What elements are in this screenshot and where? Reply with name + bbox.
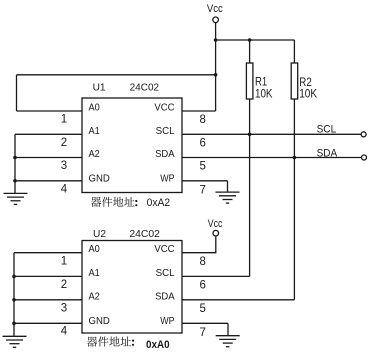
wire U2 left ground bus: [13, 253, 15, 337]
svg-text:A2: A2: [89, 290, 100, 302]
svg-text:A1: A1: [89, 267, 100, 279]
wire U1 pin 8 stub (VCC): [182, 110, 216, 112]
wire U1 WP down to ground: [227, 181, 229, 192]
svg-text:SCL: SCL: [156, 125, 175, 137]
svg-text:5: 5: [199, 303, 205, 315]
IC U1 24C02 (upper EEPROM): [82, 82, 182, 192]
wire SCL net from U1 pin 6 to terminal: [182, 133, 361, 135]
junction SCL with R1: [248, 133, 252, 137]
wire U2 pin 7 stub (WP): [182, 322, 228, 324]
wire R2 top lead: [293, 40, 295, 63]
junction U2 pin4 on bus: [12, 322, 16, 326]
svg-text:GND: GND: [89, 315, 111, 327]
svg-text:6: 6: [199, 280, 205, 292]
junction Vcc rail split: [214, 38, 218, 42]
svg-text:8: 8: [199, 114, 205, 126]
svg-text:SDA: SDA: [317, 148, 338, 160]
wire U2 pin 2 stub (A1): [14, 275, 82, 277]
wire U1 pin 2 stub (A1): [15, 133, 82, 135]
wire U1 pin 4 stub (GND): [15, 180, 82, 182]
wire R1 bottom lead down to U2 SCL row: [249, 99, 251, 276]
svg-text:A2: A2: [89, 148, 100, 160]
svg-text:8: 8: [199, 256, 205, 268]
wire SDA net from U1 pin 5 to terminal: [182, 157, 361, 159]
svg-text:R1: R1: [255, 77, 267, 89]
wire U2 WP down to ground: [227, 323, 229, 335]
wire U2 pin 6 stub (SCL branch from R1): [182, 275, 250, 277]
svg-text:A0: A0: [89, 243, 100, 255]
wire U2 pin 4 stub (GND): [14, 322, 82, 324]
wire U2 pin 3 stub (A2): [14, 299, 82, 301]
junction R1 top: [248, 38, 252, 42]
svg-text:SDA: SDA: [155, 290, 175, 302]
wire Vcc2 down and into U2 pin 8: [182, 236, 216, 252]
svg-text:4: 4: [61, 326, 68, 338]
junction U1 pin4 on bus: [13, 179, 17, 183]
terminal SDA: [362, 155, 367, 160]
ground G3 for U2 address pins: [3, 336, 27, 347]
svg-text:10K: 10K: [255, 89, 273, 101]
svg-text:WP: WP: [160, 173, 174, 185]
svg-text:Vcc: Vcc: [207, 3, 223, 15]
svg-text:0xA0: 0xA0: [146, 339, 170, 351]
wire U2 pin 5 stub (SDA branch from R2): [182, 299, 294, 301]
svg-text:3: 3: [61, 302, 67, 314]
svg-text:SCL: SCL: [156, 267, 175, 279]
junction U2 pin2 on bus: [12, 275, 16, 279]
wire U1 left ground bus: [14, 134, 16, 193]
ground G4 for U2 WP: [216, 336, 240, 347]
wire U1 pin 1 stub (A0): [17, 110, 83, 112]
svg-text:24C02: 24C02: [129, 229, 160, 240]
junction U1 pin3 on bus: [13, 156, 17, 160]
label U1 device address: Chinese text device-address: [91, 197, 138, 207]
svg-text:5: 5: [199, 161, 205, 173]
junction SDA with R2: [293, 156, 297, 160]
svg-text:GND: GND: [89, 173, 111, 185]
svg-text:Vcc: Vcc: [208, 218, 223, 230]
svg-text:2: 2: [61, 137, 67, 149]
junction U2 pin3 on bus: [12, 298, 16, 302]
wire Vcc loop to U1 A0 (top horizontal): [17, 74, 216, 76]
resistor R2 10K: [291, 63, 317, 101]
svg-text:2: 2: [61, 279, 67, 291]
wire R1 top lead: [249, 40, 251, 63]
svg-text:A1: A1: [89, 125, 100, 137]
wire Vcc vertical down to U1 pin 8 row: [215, 23, 217, 111]
svg-text:SDA: SDA: [155, 148, 175, 160]
power symbol Vcc (top rail): [207, 3, 223, 23]
svg-text:7: 7: [199, 184, 205, 196]
svg-text:A0: A0: [89, 102, 100, 114]
power symbol Vcc (above U2): [208, 218, 223, 236]
ground G1 for U1 address pins: [4, 193, 28, 204]
svg-text:R2: R2: [299, 77, 312, 89]
svg-text:24C02: 24C02: [130, 82, 160, 93]
svg-text:10K: 10K: [299, 89, 317, 101]
wire Vcc loop left vertical: [16, 75, 18, 111]
svg-text:6: 6: [199, 138, 205, 150]
terminal SCL: [361, 132, 366, 137]
svg-text:VCC: VCC: [154, 243, 175, 255]
svg-text:VCC: VCC: [154, 102, 175, 114]
svg-text:SCL: SCL: [317, 123, 337, 135]
svg-text:U1: U1: [93, 82, 106, 93]
svg-text:7: 7: [199, 327, 205, 339]
resistor R1 10K: [246, 63, 272, 101]
svg-text:0xA2: 0xA2: [147, 197, 171, 209]
wire U2 pin 1 stub (A0): [14, 252, 82, 254]
svg-text:1: 1: [61, 255, 67, 267]
svg-text:4: 4: [61, 183, 68, 195]
wire U1 pin 3 stub (A2): [15, 157, 82, 159]
wire U1 pin 7 stub (WP): [182, 180, 228, 182]
ground G2 for U1 WP: [216, 192, 240, 203]
junction Vcc loop on Vcc vertical: [214, 73, 218, 77]
label U2 device address: Chinese text device-address: [87, 336, 134, 346]
svg-text:3: 3: [61, 160, 67, 172]
svg-text:WP: WP: [160, 315, 174, 327]
wire R2 bottom lead down to U2 SDA row: [293, 99, 295, 300]
svg-text:U2: U2: [93, 229, 106, 240]
svg-text:1: 1: [61, 114, 67, 126]
wire Vcc rail over to resistors: [216, 39, 295, 41]
IC U2 24C02 (lower EEPROM): [82, 229, 182, 333]
